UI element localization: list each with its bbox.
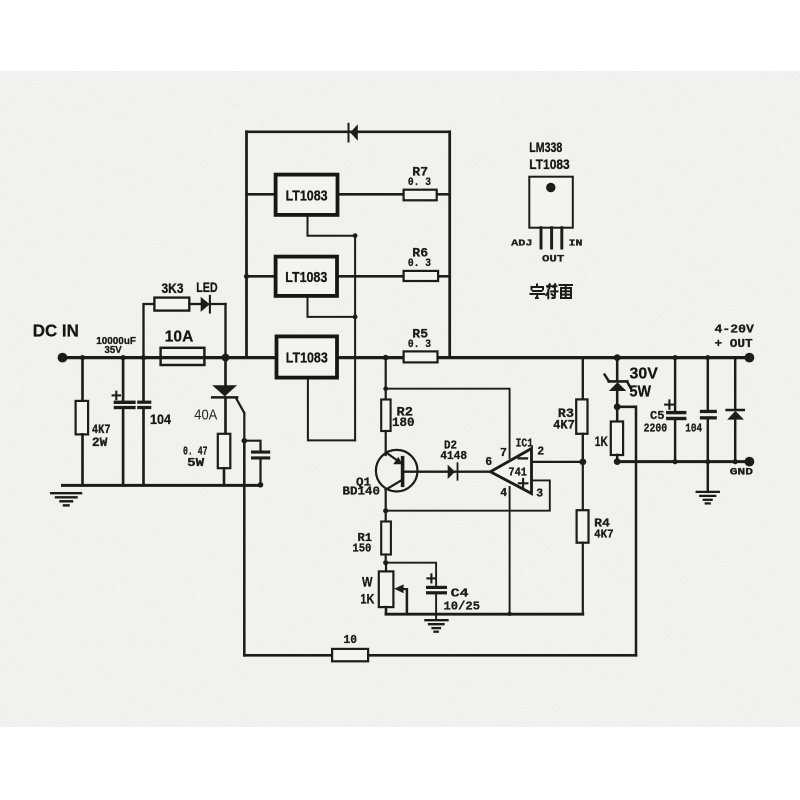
transistor Q1 BD140 [343,450,418,511]
svg-text:5W: 5W [630,384,652,401]
resistor 0.47 5W [183,434,230,486]
capacitor 10000uF 35V electrolytic [96,336,136,486]
wire: ADJ chain vertical [354,236,356,441]
node: ADJ2 junction [353,315,358,320]
resistor 10 in trigger loop [332,633,368,661]
capacitor 104 input [137,358,171,486]
svg-text:2W: 2W [92,436,108,450]
svg-text:LT1083: LT1083 [529,157,570,172]
wire: U1 OUT pin to R7 [338,193,450,196]
ground symbol left [51,493,81,505]
svg-text:10A: 10A [165,328,194,345]
svg-text:BD140: BD140 [343,485,381,499]
svg-text:4: 4 [500,487,507,500]
wire: U2 IN pin [244,274,276,279]
ground symbol right [697,462,719,504]
svg-text:LT1083: LT1083 [286,188,328,204]
svg-text:LT1083: LT1083 [286,351,328,367]
wire: top loop left vertical [245,132,248,358]
svg-text:0. 3: 0. 3 [408,177,431,189]
node: GND terminal [730,457,755,479]
svg-text:4148: 4148 [440,450,467,463]
node: bus junction at C5 [673,355,678,360]
regulator U1 LT1083 [276,175,338,215]
wire: R2 to Q1 emitter [385,431,387,455]
resistor 1K trigger [595,407,623,462]
resistor 3K3 with branch wires [144,281,201,358]
package drawing LM338/LT1083 TO-220 [511,140,583,265]
svg-text:C4: C4 [451,588,469,601]
node: bus junction at 104 out [705,355,710,360]
wire: U2 OUT pin to R6 [337,275,450,278]
node: bus junction at R2 [383,355,389,361]
svg-text:104: 104 [150,411,171,427]
svg-text:ADJ: ADJ [511,238,532,249]
diode D2 4148 [440,440,467,480]
wire: Q1 base to op-amp output [404,471,491,473]
node: bus junction at zener [614,354,621,361]
wire: bus down to R2 [385,358,387,400]
zener diode 30V 5W [605,358,659,407]
svg-text:35V: 35V [105,345,123,356]
node: R1 bottom junction [383,560,388,565]
svg-text:3K3: 3K3 [162,281,184,296]
resistor R2 180 [381,400,414,432]
node: bus junction at 4K7 [80,355,85,360]
wire: IC1 pin 3 loop to Q1 collector node [386,480,550,510]
svg-text:0. 3: 0. 3 [408,339,431,351]
svg-text:OUT: OUT [542,254,564,266]
svg-text:5W: 5W [187,457,204,470]
label DC IN [33,321,79,341]
svg-text:0. 3: 0. 3 [408,258,431,270]
svg-text:6: 6 [485,456,492,469]
wire: bottom trigger loop [244,654,636,657]
wire: negative feedback bottom rail [386,613,583,616]
svg-text:1K: 1K [360,591,374,607]
svg-text:150: 150 [352,542,371,556]
resistor R7 0.3 [404,166,437,201]
node: DC IN terminal [58,353,68,363]
op-amp IC1 741 [485,437,544,501]
svg-text:W: W [362,573,373,589]
wire: U1 IN pin [247,193,276,196]
capacitor gate-cathode [244,441,270,488]
wire: U3 ADJ down and over [308,378,355,441]
ground symbol at C4 [425,620,447,632]
svg-text:40A: 40A [194,407,217,424]
wire: gate node down to bottom trigger loop [243,441,246,656]
potentiometer W 1K [360,563,407,615]
wire: IC1 pin 4 down to negative rail [507,487,511,616]
wire: IC1 pin 2 to R3 node [532,461,583,463]
node: +OUT terminal [715,322,755,362]
resistor 4K7 2W with leads [76,358,111,486]
thyristor 40A crowbar SCR [194,358,244,441]
svg-text:+ OUT: + OUT [715,337,753,351]
svg-text:104: 104 [685,421,702,435]
resistor R6 0.3 [404,246,439,281]
svg-text:4-20V: 4-20V [715,322,755,336]
wire: right ground rail to GND [617,460,749,463]
svg-text:1K: 1K [595,434,608,449]
node: R3 / pin2 / R4 junction [579,459,586,466]
node: zener anode junction [614,403,621,410]
fuse 10A on bus [161,328,205,365]
node: junction to op-amp supply [383,386,388,391]
svg-text:3: 3 [536,488,543,501]
diode output protection [727,358,744,465]
svg-text:2200: 2200 [644,421,668,435]
svg-text:GND: GND [730,466,753,478]
svg-text:2: 2 [537,446,544,459]
wire: main positive bus DC IN to +OUT [62,356,749,359]
svg-text:DC IN: DC IN [33,321,79,341]
svg-text:30V: 30V [630,366,659,383]
svg-text:741: 741 [508,466,527,479]
wire: top loop right vertical [448,132,451,358]
svg-text:4K7: 4K7 [553,419,575,433]
node: Q1 collector junction [383,508,388,513]
capacitor C5 2200 [644,358,687,465]
wire: top feedback loop horizontal [247,131,450,134]
node: bus junction at C-in [121,355,126,360]
svg-text:180: 180 [392,416,415,430]
node: bus junction at SCR [222,354,230,362]
wire: left ground rail [63,484,261,487]
svg-text:10/25: 10/25 [444,601,481,614]
resistor R1 150 [352,511,391,563]
node: SCR gate junction [242,438,248,444]
LED indicator diode [196,280,225,358]
capacitor C4 10/25 [386,563,480,621]
wire: to IC1 pin 7 [386,389,510,458]
node: 1K bottom at ground rail [614,458,621,465]
node: bus junction at 104 cap [141,355,146,360]
svg-text:LT1083: LT1083 [285,270,327,286]
regulator U2 LT1083 [276,257,337,296]
svg-text:4K7: 4K7 [594,527,614,541]
svg-text:7: 7 [500,447,507,460]
svg-text:IC1: IC1 [516,437,533,451]
node: ADJ1 junction [353,233,358,238]
resistor R4 4K7 [577,462,614,614]
svg-text:IN: IN [569,238,583,249]
label Chinese 字符面 (character side) [531,284,573,298]
resistor R3 4K7 [553,358,587,462]
capacitor 104 output [685,358,717,465]
wire: U1 ADJ down and over [308,215,356,236]
regulator U3 LT1083 [277,336,338,377]
svg-text:LED: LED [196,280,218,295]
diode D-top on feedback loop [349,124,358,142]
svg-text:4K7: 4K7 [92,423,111,437]
wire: U2 ADJ down and over [308,296,356,317]
wire: zener node jog to SCR trigger vertical [617,407,636,656]
svg-text:10: 10 [344,633,358,647]
svg-text:LM338: LM338 [529,140,562,155]
resistor R5 0.3 [404,328,438,363]
